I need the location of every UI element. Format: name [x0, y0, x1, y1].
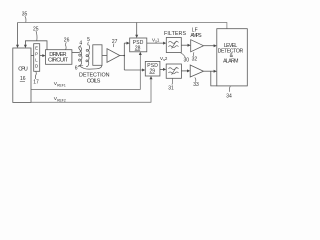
svg-text:17: 17 [33, 80, 39, 86]
wire leader of label 32 [192, 52, 194, 56]
svg-text:27: 27 [112, 39, 118, 45]
PSD box 29 [145, 61, 160, 76]
svg-text:FILTERS: FILTERS [164, 31, 186, 37]
wire coils bottom return [79, 65, 102, 69]
svg-text:DETECTION: DETECTION [79, 72, 110, 78]
wire leader of label 35 [25, 16, 26, 22]
wire leader of label 33 [195, 77, 196, 81]
node arrowhead into PSD28 top [135, 35, 138, 38]
wire leader of label 5 [87, 42, 90, 45]
level detector box 34 [217, 29, 248, 86]
svg-text:33: 33 [193, 82, 199, 88]
wire Vs1 [147, 42, 165, 44]
svg-text:6: 6 [75, 66, 78, 72]
wire underline of 29 [149, 72, 154, 74]
wire amp27 output to junction [120, 55, 125, 57]
svg-text:L: L [35, 57, 38, 62]
wire Vs2 [160, 68, 165, 70]
label 17 [33, 80, 39, 86]
wire filter 30 to amp32 [181, 44, 189, 46]
wire junction vertical [123, 43, 125, 70]
wire EPLD to driver circuit [40, 55, 45, 57]
sensor box [93, 45, 102, 66]
node arrowhead into CPU top at x25.4 [24, 45, 27, 48]
filter box 31 [166, 64, 181, 78]
wire into PSD29 left [124, 69, 144, 71]
node arrowhead into driver left [42, 54, 45, 57]
label 25 [33, 26, 39, 32]
svg-text:4: 4 [79, 41, 82, 47]
label VREF2 [54, 96, 66, 103]
svg-text:5: 5 [87, 37, 90, 43]
wire VREF1 rail [31, 53, 140, 89]
node arrowhead into PSD28 left [127, 42, 130, 45]
CPU box 16 [13, 48, 31, 102]
svg-text:35: 35 [22, 11, 28, 17]
svg-text:1: 1 [157, 37, 160, 42]
wire bracket bus 25 [25, 41, 47, 50]
svg-text:REF1: REF1 [57, 84, 66, 88]
coil 4 [79, 47, 82, 66]
PSD box 28 [130, 38, 147, 52]
label 6 [75, 66, 78, 72]
wire VREF2 rail [31, 78, 151, 103]
svg-text:30: 30 [184, 58, 190, 64]
svg-text:CIRCUIT: CIRCUIT [48, 58, 68, 64]
node arrowhead into filter 30 [163, 42, 166, 45]
op-amp 32 [191, 40, 204, 52]
wire amp32 to level detector [204, 45, 216, 47]
label DETECTION COILS [79, 72, 110, 84]
wire underline of 28 [135, 49, 140, 51]
svg-text:31: 31 [168, 85, 174, 91]
label 32 [192, 56, 198, 62]
wire filter 31 to amp33 [181, 70, 188, 72]
wire underline of 16 [20, 80, 25, 82]
node junction dot [124, 55, 126, 57]
op-amp 27 [107, 49, 120, 63]
label Vs1 [152, 37, 160, 43]
wire into PSD28 left [124, 42, 128, 44]
wire sensor box to amp27 [102, 55, 107, 57]
node arrowhead into PSD29 left [142, 69, 145, 72]
svg-text:E: E [35, 45, 38, 50]
filter box 30 [166, 38, 181, 53]
wave symbols in filter 31 [168, 67, 178, 75]
wire leader of label 31 [171, 79, 174, 85]
coil 5 [86, 45, 90, 67]
svg-text:AMPS: AMPS [190, 33, 202, 39]
label 4 [79, 41, 82, 47]
wire CPU to EPLD link [31, 55, 34, 57]
label FILTERS [164, 31, 186, 37]
node arrowhead into amp32 [188, 44, 191, 47]
svg-text:D: D [35, 63, 38, 68]
node arrowhead into CPU top at x17.5 [16, 45, 19, 48]
wire leader of label 6 [78, 65, 83, 66]
wire leader of label 34 [228, 86, 231, 92]
label 26 [64, 38, 70, 44]
label 27 [112, 39, 118, 45]
svg-text:2: 2 [165, 56, 168, 61]
svg-text:ALARM: ALARM [223, 58, 238, 64]
op-amp 33 [190, 65, 203, 77]
label 5 [87, 37, 90, 43]
wire leader of label 30 [181, 53, 186, 58]
wire leader of label 25 [36, 31, 37, 41]
wire amp33 to level detector [204, 70, 216, 72]
wave symbols in filter 30 [168, 41, 178, 49]
label LF AMPS [190, 28, 202, 40]
wire leader of label 27 [112, 44, 115, 48]
wire top line drop into PSD28 top [136, 23, 138, 37]
label VREF1 [54, 81, 66, 88]
svg-text:32: 32 [192, 56, 198, 62]
label 31 [168, 85, 174, 91]
label Vs2 [160, 56, 168, 62]
wire leader of label 17 from EPLD bottom [35, 71, 36, 79]
wire top oscillator line 35 [18, 23, 227, 29]
label 30 [184, 58, 190, 64]
node arrowhead into level detector top input [214, 44, 217, 47]
node arrowhead into PSD28 bottom [139, 52, 142, 55]
svg-text:34: 34 [226, 93, 232, 99]
label 34 [226, 93, 232, 99]
node arrowhead into level detector bottom input [214, 70, 217, 73]
svg-text:COILS: COILS [87, 79, 101, 85]
svg-text:REF2: REF2 [57, 99, 66, 103]
label 35 [22, 11, 28, 17]
label 33 [193, 82, 199, 88]
node arrowhead into amp33 [187, 69, 190, 72]
svg-text:CPU: CPU [18, 66, 28, 72]
driver circuit box 26 [46, 50, 72, 65]
wire drop into CPU pin 1 [17, 23, 19, 46]
svg-text:26: 26 [64, 38, 70, 44]
wire driver to coils [72, 51, 79, 53]
svg-text:P: P [35, 51, 38, 56]
EPLD box 17 [34, 44, 40, 72]
wire leader of label 26 [65, 42, 68, 49]
wire leader of label 4 [79, 45, 82, 47]
wire amp33 branch to level detector bottom corner [211, 71, 217, 86]
node arrowhead into filter 31 [163, 68, 166, 71]
node arrowhead into PSD29 bottom [150, 76, 153, 79]
